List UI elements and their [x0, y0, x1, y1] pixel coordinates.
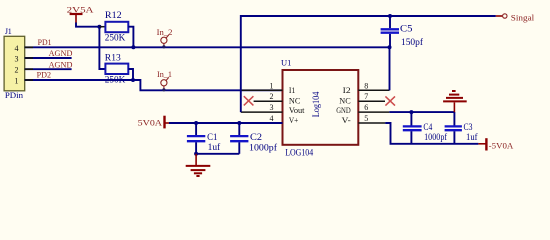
wire GND net (pin 6 to ground) [389, 111, 454, 113]
svg-text:250K: 250K [105, 74, 126, 84]
wire V- net (pin 5 to -5V0A) [385, 123, 478, 144]
wire 2V5A to R12/R13 [76, 23, 99, 27]
svg-text:LOG104: LOG104 [285, 148, 313, 158]
wire C1/C2 bottom to ground [196, 153, 239, 155]
svg-text:AGND: AGND [49, 48, 73, 58]
svg-text:1000pf: 1000pf [249, 143, 277, 153]
wire PD1 / In_2 net (J1 pin4 to C5 node) [25, 46, 390, 48]
ground symbol (right) [443, 91, 467, 113]
svg-text:7: 7 [364, 92, 368, 101]
wire I2 net vertical (C5/In_2 node down to pin 8) [389, 47, 391, 90]
junction C5 bottom node [388, 45, 392, 49]
connector J1 body [4, 36, 25, 91]
svg-text:2V5A: 2V5A [67, 4, 95, 14]
junction C4 top [409, 110, 413, 114]
svg-text:J1: J1 [5, 27, 12, 36]
capacitor C5 [381, 16, 399, 47]
capacitor C4 [403, 112, 422, 144]
U1 pin 3 line [241, 111, 283, 113]
wire vertical 2V5A down to R13 [99, 27, 105, 69]
svg-text:4: 4 [270, 114, 274, 123]
svg-text:C5: C5 [400, 23, 413, 33]
power bar 2V5A [70, 14, 83, 23]
power bar -5V0A [478, 138, 486, 150]
svg-text:V-: V- [342, 115, 351, 125]
svg-text:NC: NC [339, 95, 351, 105]
svg-text:6: 6 [364, 103, 368, 112]
junction R13/PD2 wire [131, 78, 135, 82]
svg-text:1: 1 [270, 81, 274, 90]
svg-text:1uf: 1uf [466, 132, 478, 142]
svg-text:PD2: PD2 [37, 69, 51, 79]
resistor R12 [99, 22, 133, 48]
U1 pin 7 line [358, 100, 385, 102]
svg-text:Log104: Log104 [311, 91, 321, 117]
net marker In_2 [161, 35, 169, 49]
junction at 2V5A / R12 [97, 25, 101, 29]
U1 pin 6 line [358, 111, 389, 113]
svg-text:3: 3 [15, 55, 19, 64]
port Signal circle [503, 14, 507, 18]
capacitor C1 [187, 123, 205, 154]
svg-text:NC: NC [289, 95, 301, 105]
wire AGND lower [25, 68, 72, 70]
power bar 5V0A [165, 116, 171, 129]
svg-text:5V0A: 5V0A [138, 118, 163, 128]
U1 pin 5 line [358, 122, 385, 124]
capacitor C2 [230, 123, 248, 154]
junction C1 top [194, 121, 198, 125]
svg-text:1: 1 [15, 77, 19, 86]
svg-text:1000pf: 1000pf [424, 132, 447, 142]
junction C5 top [388, 14, 392, 18]
svg-text:5: 5 [364, 114, 368, 123]
svg-text:In_1: In_1 [157, 69, 172, 79]
svg-text:8: 8 [364, 81, 368, 90]
svg-text:4: 4 [15, 44, 19, 53]
svg-text:Vout: Vout [289, 105, 305, 115]
svg-text:2: 2 [270, 92, 274, 101]
svg-text:150pf: 150pf [401, 37, 423, 47]
port Signal lead [496, 15, 503, 17]
J1 pin stubs [25, 47, 33, 80]
svg-text:GND: GND [336, 105, 351, 115]
svg-text:3: 3 [270, 103, 274, 112]
wire PD2 / In_1 net (J1 pin1 to U1 pin1) [25, 80, 283, 90]
no-connect X on pin 7 [385, 96, 395, 105]
svg-text:C3: C3 [464, 122, 473, 132]
junction ground node [194, 152, 198, 156]
U1 pin 2 line [254, 100, 283, 102]
svg-text:R13: R13 [105, 53, 122, 63]
junction R12/PD1 wire [131, 45, 135, 49]
svg-text:PD1: PD1 [38, 37, 52, 47]
U1 pin 8 line [358, 89, 389, 91]
junction C2 top [237, 121, 241, 125]
capacitor C3 [445, 112, 462, 144]
svg-text:C2: C2 [250, 132, 262, 142]
svg-text:U1: U1 [281, 58, 291, 68]
svg-text:C4: C4 [423, 122, 432, 132]
U1 pin 1 line [241, 89, 283, 91]
wire Signal net (Vout): vertical from pin 3 and top run [241, 16, 496, 112]
no-connect X on pin 2 [244, 96, 254, 105]
svg-text:250K: 250K [105, 33, 126, 43]
svg-text:I1: I1 [289, 85, 295, 95]
net marker In_1 [161, 77, 169, 91]
svg-text:1uf: 1uf [208, 142, 221, 152]
svg-text:I2: I2 [343, 85, 351, 95]
svg-text:R12: R12 [105, 10, 122, 20]
svg-text:AGND: AGND [49, 60, 73, 70]
ground symbol (left) [186, 154, 211, 176]
svg-text:-5V0A: -5V0A [489, 140, 514, 150]
svg-text:PDin: PDin [5, 90, 24, 100]
wire AGND upper [25, 57, 72, 59]
svg-text:2: 2 [15, 66, 19, 75]
svg-text:V+: V+ [289, 115, 299, 125]
svg-text:Singal: Singal [511, 12, 535, 22]
wire V+ net (5V0A to pin 4) [169, 122, 283, 124]
op-amp U1 body (LOG104) [283, 70, 359, 145]
svg-text:C1: C1 [207, 132, 217, 142]
resistor R13 [105, 64, 133, 80]
U1 pin 4 line [241, 122, 283, 124]
svg-text:In_2: In_2 [157, 27, 173, 37]
